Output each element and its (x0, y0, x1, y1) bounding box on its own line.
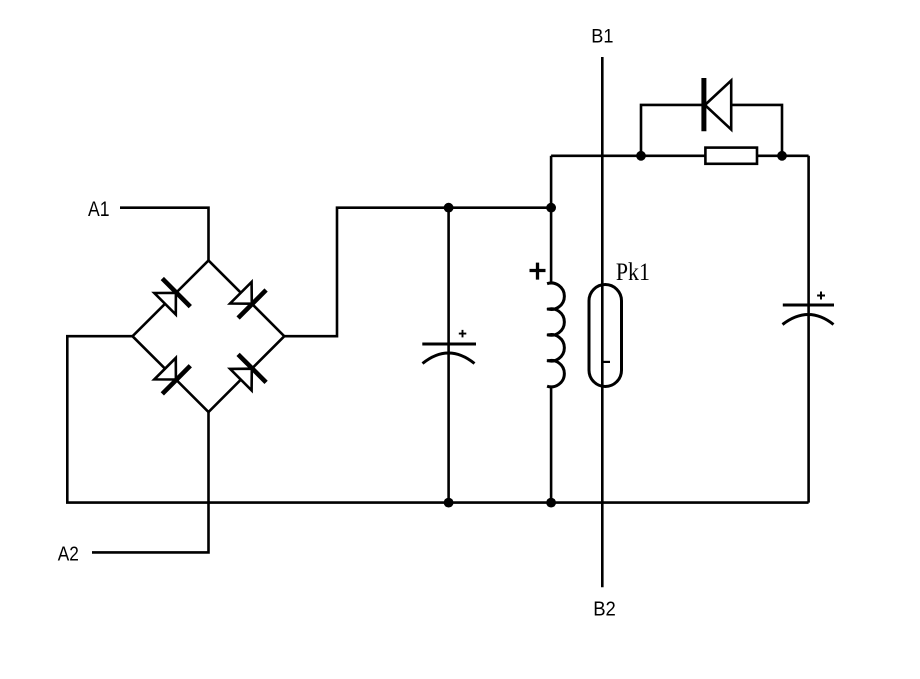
svg-text:B2: B2 (593, 598, 616, 620)
svg-text:B1: B1 (591, 26, 613, 48)
svg-text:A1: A1 (88, 197, 110, 221)
svg-text:A2: A2 (58, 542, 79, 565)
svg-text:Pk1: Pk1 (616, 259, 650, 286)
